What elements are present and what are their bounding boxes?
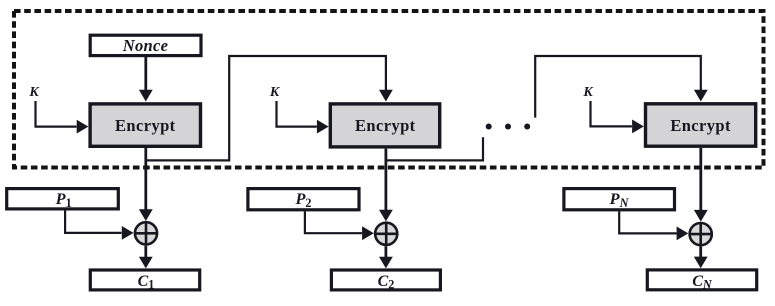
wire K to Encrypt N: [591, 101, 644, 133]
C1 box: [90, 270, 199, 292]
feedback wire Encrypt 2 output toward ellipsis: [386, 137, 483, 160]
P1 box: [7, 189, 119, 210]
svg-text:K: K: [582, 85, 594, 100]
svg-text:Encrypt: Encrypt: [355, 116, 416, 135]
svg-text:K: K: [28, 85, 40, 100]
wire P1 to XOR 1: [65, 211, 133, 240]
CN box: [647, 270, 756, 292]
dashed security boundary box: [14, 11, 764, 168]
Encrypt box N: [646, 104, 756, 146]
wire Nonce to Encrypt 1: [139, 56, 153, 102]
Encrypt box 1: [90, 104, 200, 146]
wire Encrypt 1 output down to XOR 1: [139, 148, 153, 221]
Encrypt box 2: [330, 104, 439, 147]
wire XOR 1 to C1: [139, 246, 153, 269]
Nonce box: [90, 35, 201, 55]
feedback wire from ellipsis to Encrypt N input: [535, 56, 708, 118]
wire Encrypt N output down to XOR N: [694, 148, 708, 222]
svg-text:Nonce: Nonce: [122, 36, 169, 55]
XOR node 1: [135, 222, 157, 244]
P2 box: [248, 189, 359, 210]
wire Encrypt 2 output down to XOR 2: [379, 149, 393, 222]
wire XOR N to CN: [694, 247, 708, 269]
wire K to Encrypt 1: [36, 101, 89, 134]
C2 box: [331, 270, 440, 292]
wire PN to XOR N: [619, 211, 688, 240]
svg-text:K: K: [269, 85, 281, 100]
wire K to Encrypt 2: [277, 101, 329, 134]
wire P2 to XOR 2: [305, 211, 374, 240]
wire XOR 2 to C2: [379, 246, 393, 268]
feedback wire Encrypt 1 output to Encrypt 2 input: [146, 56, 393, 160]
XOR node 2: [375, 223, 397, 245]
svg-text:Encrypt: Encrypt: [670, 116, 731, 135]
svg-text:Encrypt: Encrypt: [115, 116, 176, 135]
ellipsis dots: [486, 124, 531, 130]
XOR node N: [690, 223, 712, 245]
PN box: [564, 189, 675, 210]
